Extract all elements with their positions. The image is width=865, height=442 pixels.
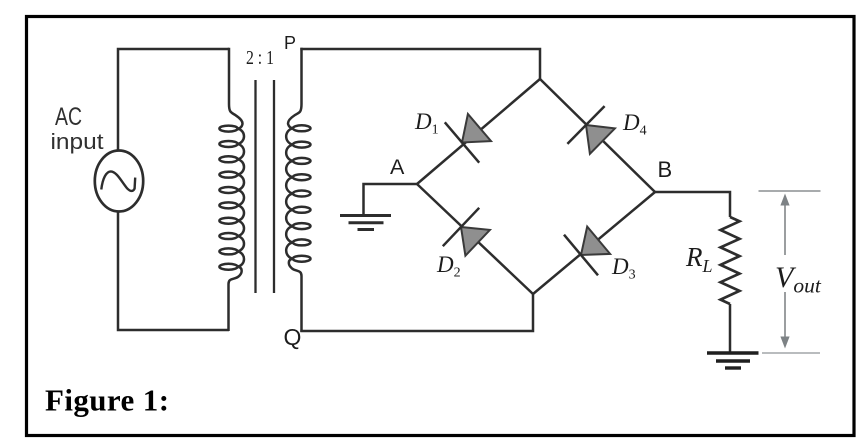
wire: resistor to ground <box>729 304 732 352</box>
svg-text:B: B <box>658 157 673 182</box>
wire: A to ground <box>364 184 418 215</box>
diode D2 <box>443 208 490 256</box>
svg-text:AC: AC <box>55 103 82 131</box>
svg-text:Figure 1:: Figure 1: <box>45 383 169 418</box>
wire: bridge edge Bottom-B <box>533 192 655 294</box>
wire: secondary bottom lead <box>289 259 302 332</box>
wire: P to bridge top <box>300 49 540 79</box>
Vout arrowhead down <box>780 337 789 349</box>
wire: bridge edge T-A <box>417 79 540 184</box>
wire: bridge edge A-Bottom <box>417 184 533 294</box>
svg-text:P: P <box>284 33 296 53</box>
Vout arrowhead up <box>780 194 789 206</box>
Vout arrow upper segment <box>784 203 786 255</box>
diode D4 <box>567 106 615 154</box>
AC source V1 <box>95 151 143 212</box>
wire: B to load <box>655 192 730 217</box>
inductor L1 primary coil <box>219 126 244 270</box>
wire: primary top lead <box>229 48 243 129</box>
sine symbol inside AC source <box>101 171 135 191</box>
transformer core left line <box>254 80 256 293</box>
wire: secondary top lead <box>288 48 302 129</box>
svg-text:input: input <box>51 129 104 154</box>
transformer core right line <box>273 80 275 293</box>
resistor RL <box>721 217 740 304</box>
svg-text:2 : 1: 2 : 1 <box>246 47 274 69</box>
Vout dimension bottom line <box>762 352 820 354</box>
wire: AC loop top horizontal <box>118 49 229 150</box>
wire: AC loop bottom horizontal <box>118 211 229 330</box>
wire: bridge edge T-B <box>540 79 655 192</box>
diode D1 <box>445 114 491 163</box>
wire: primary bottom lead <box>229 267 242 331</box>
wire: Q to bridge bottom <box>300 294 533 331</box>
svg-text:A: A <box>390 155 405 179</box>
Vout arrow lower segment <box>784 292 786 338</box>
ground at load <box>707 353 759 368</box>
svg-text:Q: Q <box>284 324 302 350</box>
Vout dimension top line <box>759 190 821 192</box>
ground at node A <box>340 216 391 230</box>
inductor L2 secondary coil <box>286 125 310 261</box>
diode D3 <box>564 227 610 276</box>
